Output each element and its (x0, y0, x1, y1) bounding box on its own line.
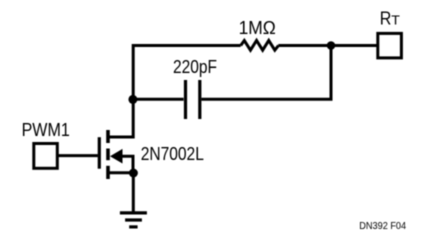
svg-text:2N7002L: 2N7002L (141, 144, 204, 164)
transistor Q1 gate bar (98, 137, 101, 169)
ground symbol top bar (120, 211, 147, 214)
transistor Q1 channel middle segment (body) (106, 149, 110, 161)
transistor Q1 body arrow (110, 149, 123, 164)
capacitor C1 right plate (198, 80, 201, 119)
input terminal PWM1 (box) (34, 144, 58, 169)
transistor Q1 channel top segment (drain) (106, 130, 110, 143)
wire top rail right (resistor to RT terminal) (278, 44, 376, 47)
wire feedback branch (junction down and left to capacitor) (201, 46, 331, 100)
output terminal RT (box) (378, 33, 402, 58)
transistor Q1 channel bottom segment (source) (106, 166, 110, 179)
resistor R1 zigzag (241, 41, 279, 51)
node junction at source (129, 169, 138, 178)
node junction at resistor/RT (327, 41, 336, 50)
node junction at drain riser / capacitor (128, 95, 137, 104)
wire gate (PWM1 to Q1 gate) (57, 154, 98, 157)
svg-text:220pF: 220pF (173, 57, 217, 77)
ground symbol bottom bar (129, 225, 137, 228)
svg-text:DN392 F04: DN392 F04 (359, 220, 406, 232)
svg-text:PWM1: PWM1 (22, 120, 70, 140)
wire drain (channel to left vertical riser up to top rail) (108, 46, 241, 138)
wire source (channel to source junction) (108, 171, 135, 174)
svg-text:R: R (380, 9, 392, 29)
svg-text:1MΩ: 1MΩ (239, 18, 276, 38)
capacitor C1 left plate (184, 80, 187, 119)
wire capacitor left to drain riser (133, 98, 183, 101)
wire source to ground (132, 173, 135, 212)
wire body to source junction (121, 156, 134, 171)
svg-text:T: T (391, 13, 400, 28)
ground symbol middle bar (125, 218, 142, 221)
